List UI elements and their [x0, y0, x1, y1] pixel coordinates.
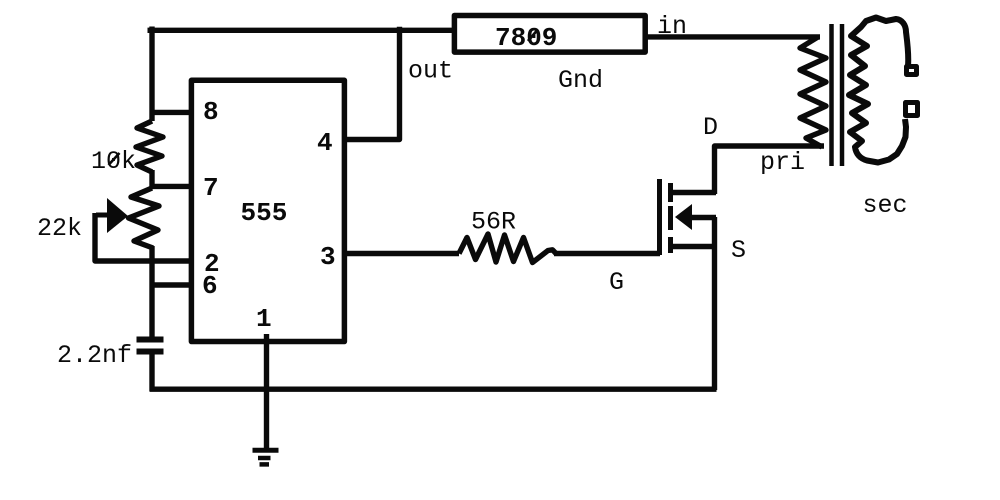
svg-text:4: 4 [317, 128, 333, 158]
wire drain lead from transformer [715, 146, 825, 194]
resistor 56R [459, 234, 556, 263]
potentiometer 22k wiper hook wire to pin 2 [95, 213, 191, 261]
regulator 7809 body [454, 16, 645, 53]
svg-text:out: out [408, 57, 453, 86]
svg-text:G: G [609, 268, 624, 297]
svg-text:10k: 10k [91, 147, 136, 176]
wire left rail upper [149, 27, 154, 122]
transformer T1 secondary terminal lower [906, 103, 918, 116]
svg-text:8: 8 [203, 97, 219, 127]
wire bottom rail [150, 387, 717, 392]
wire left rail between 10k and pot [149, 170, 154, 188]
label 7809 zero slash [528, 31, 537, 42]
svg-text:3: 3 [320, 242, 336, 272]
svg-text:56R: 56R [471, 208, 516, 237]
wire pin 3 lead [344, 251, 459, 256]
svg-text:555: 555 [241, 198, 288, 228]
MOSFET Q1 channel segment top [668, 183, 673, 202]
potentiometer 22k resistor body [129, 188, 160, 248]
svg-text:sec: sec [863, 191, 908, 220]
MOSFET Q1 source internal wire [672, 244, 716, 249]
svg-text:D: D [703, 113, 718, 142]
MOSFET Q1 drain internal wire [672, 190, 716, 195]
ground [253, 448, 279, 453]
wire pin 1 to ground [264, 334, 269, 450]
wire left rail pot to capacitor [149, 246, 154, 338]
svg-text:22k: 22k [37, 214, 82, 243]
svg-text:in: in [657, 12, 687, 41]
svg-text:2.2nf: 2.2nf [57, 341, 132, 370]
label 10k zero slash [109, 153, 120, 165]
svg-text:6: 6 [202, 271, 218, 301]
wire top supply rail [148, 28, 455, 33]
IC 555 body [191, 80, 344, 341]
wire gate lead [554, 251, 660, 256]
transformer T1 secondary terminal upper [907, 67, 917, 75]
MOSFET Q1 gate bar [657, 179, 662, 255]
MOSFET Q1 channel segment middle [668, 206, 673, 230]
resistor 10k [136, 121, 163, 172]
wire pin 7 stub [152, 184, 191, 189]
svg-text:Gnd: Gnd [558, 66, 603, 95]
transformer T1 secondary winding [849, 18, 908, 163]
wire source to bottom rail [712, 217, 717, 390]
svg-text:7: 7 [203, 173, 219, 203]
transformer T1 primary winding [800, 37, 826, 147]
wire pin 8 stub [152, 110, 191, 115]
transformer core [829, 24, 834, 166]
svg-text:1: 1 [256, 304, 272, 334]
capacitor 2.2nf [137, 337, 164, 343]
MOSFET Q1 channel segment bottom [668, 237, 673, 253]
wire pin 6 stub [152, 282, 191, 287]
svg-text:pri: pri [760, 148, 805, 177]
potentiometer 22k wiper arrow [96, 213, 108, 218]
svg-text:7809: 7809 [495, 23, 557, 53]
wire capacitor to bottom rail [149, 354, 154, 391]
wire out branch to pin 4 [344, 27, 400, 140]
svg-text:S: S [731, 236, 746, 265]
MOSFET Q1 body arrow [675, 204, 692, 230]
wire regulator in lead [645, 34, 820, 39]
